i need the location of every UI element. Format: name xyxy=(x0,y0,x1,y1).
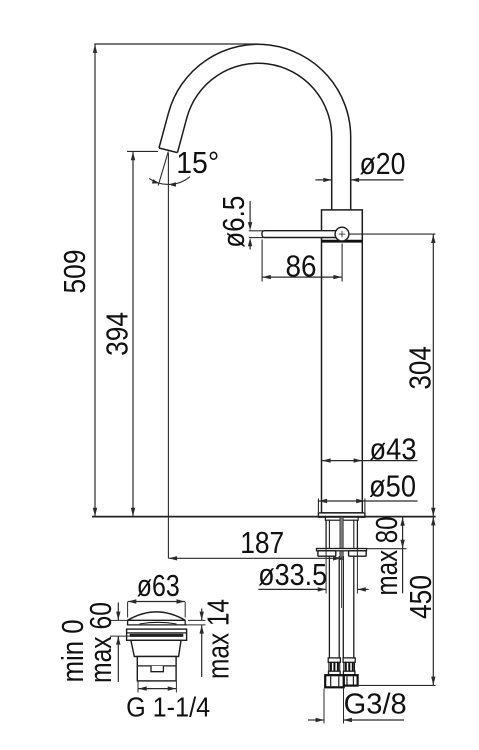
dimension 86 line xyxy=(262,276,342,278)
dimension 450 line xyxy=(432,517,434,686)
dimension 509 extension line top xyxy=(94,43,258,45)
rubber seal dark band xyxy=(130,634,184,637)
dimension G1-1/4 line xyxy=(138,688,176,690)
svg-text:G3/8: G3/8 xyxy=(344,688,407,720)
valve slot tab xyxy=(151,666,163,672)
valve body lower tier xyxy=(137,657,176,681)
dimension min0/max60 line xyxy=(117,603,119,621)
dimension o50 line xyxy=(318,500,417,502)
svg-text:15°: 15° xyxy=(176,146,219,180)
mounting nut left half xyxy=(318,551,336,556)
pivot cross marks xyxy=(341,231,343,237)
spout tip vertical extension line xyxy=(167,153,169,558)
spout outlet end face xyxy=(159,148,178,153)
valve body groove line xyxy=(137,665,176,667)
dimension G1-1/4 extension lines xyxy=(137,681,139,692)
svg-text:ø33.5: ø33.5 xyxy=(258,558,327,592)
handle joint dark band xyxy=(322,240,363,243)
dimension G3/8 lines xyxy=(308,719,324,721)
dimension o63 line xyxy=(128,601,186,603)
threaded shank o33.5 xyxy=(325,520,327,548)
lever pivot circle xyxy=(335,227,349,241)
svg-text:max 14: max 14 xyxy=(201,599,235,679)
svg-text:G 1-1/4: G 1-1/4 xyxy=(126,692,210,723)
dimension o33.5 lines xyxy=(258,588,326,590)
left supply hose xyxy=(328,556,330,658)
dimension o6.5 arrows xyxy=(249,201,251,224)
left hose crimp collar xyxy=(328,658,340,662)
dimension o33.5 extension lines xyxy=(325,549,327,594)
svg-text:max 80: max 80 xyxy=(370,517,404,596)
spout curved tube inner profile xyxy=(178,63,332,210)
15 degree angle arc xyxy=(149,177,190,185)
svg-text:min 0: min 0 xyxy=(56,619,90,682)
dimension 394 line xyxy=(132,151,134,516)
dimension G3/8 extension lines xyxy=(323,689,325,724)
svg-text:ø43: ø43 xyxy=(370,433,417,467)
dimension max 80 line xyxy=(402,517,404,593)
deck mounting line xyxy=(92,516,436,518)
hose end extension line xyxy=(358,684,436,686)
handle lever bar xyxy=(262,231,342,238)
max 80 tick line xyxy=(367,548,407,550)
dimension o50 extension lines xyxy=(317,499,319,513)
svg-text:450: 450 xyxy=(404,575,438,619)
dimension 394 extension line xyxy=(127,150,158,152)
dimension 509 line xyxy=(94,44,96,517)
shank top step xyxy=(325,517,358,520)
base flange (o50) xyxy=(318,513,365,517)
dimension max 14 line xyxy=(201,609,203,621)
svg-text:86: 86 xyxy=(286,250,317,284)
left hose nut G3/8 xyxy=(325,675,344,687)
dimension o43 line xyxy=(322,460,418,462)
dimension max 14 extension lines xyxy=(188,619,206,621)
min0/max60 tick lines xyxy=(110,619,128,621)
cap rim sides xyxy=(127,620,129,625)
spout curved tube outer profile xyxy=(159,44,351,210)
valve body upper tier xyxy=(131,640,181,656)
cap chord line xyxy=(128,619,186,621)
dimension o20 lines xyxy=(315,179,331,181)
svg-text:ø20: ø20 xyxy=(360,147,406,181)
15 degree reference line xyxy=(158,152,168,186)
right hose crimp collar xyxy=(343,658,355,662)
svg-text:509: 509 xyxy=(58,250,92,294)
svg-text:ø6.5: ø6.5 xyxy=(217,196,251,248)
dimension 304 extension line xyxy=(349,233,435,235)
threaded fixing stud xyxy=(340,517,343,559)
right supply hose xyxy=(342,556,344,658)
faucet body column xyxy=(322,210,363,513)
svg-text:ø50: ø50 xyxy=(369,470,416,504)
valve seal stack xyxy=(127,629,187,640)
dimension 86 extension lines xyxy=(261,240,263,282)
stud lower thin line xyxy=(341,556,343,608)
dimension o6.5 extension lines xyxy=(249,230,263,232)
dimension o63 extension lines xyxy=(127,602,129,618)
right hose nut G3/8 xyxy=(344,675,358,685)
dimension 304 line xyxy=(432,234,434,516)
svg-text:ø63: ø63 xyxy=(137,569,180,603)
waste valve cap dome xyxy=(128,612,186,620)
hose outer edges through shank xyxy=(328,520,330,549)
cap underside arc xyxy=(140,622,177,624)
dimension 187 line xyxy=(168,557,341,559)
svg-text:394: 394 xyxy=(100,312,134,356)
svg-text:187: 187 xyxy=(240,526,284,560)
mounting washer plate xyxy=(317,549,367,551)
cap bottom edge xyxy=(127,624,187,626)
mounting nut right half xyxy=(349,551,367,556)
svg-text:304: 304 xyxy=(403,346,437,390)
